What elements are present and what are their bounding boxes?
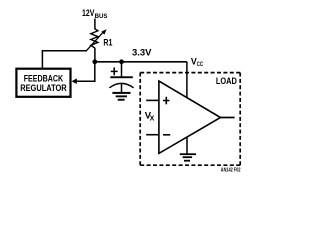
- svg-text:CC: CC: [197, 61, 204, 68]
- op-amp plus input marker: [163, 97, 169, 105]
- node junction J2: [119, 59, 124, 64]
- arrowhead into regulator right edge: [72, 78, 77, 84]
- wire R1 bottom lead: [94, 48, 96, 62]
- label VX: [145, 111, 155, 123]
- svg-text:12V: 12V: [82, 8, 95, 18]
- wire VCC drop into op-amp: [186, 62, 188, 98]
- load box (dashed) left edge: [139, 73, 141, 166]
- load box (dashed) right edge: [239, 73, 241, 166]
- capacitor C1 lead: [121, 62, 123, 77]
- feedback regulator box: [16, 69, 70, 97]
- svg-text:BUS: BUS: [95, 13, 108, 20]
- wire top lead from 12VBUS to R1: [94, 19, 96, 30]
- capacitor C1 plus label: [111, 67, 118, 75]
- wire op-amp output stub: [221, 117, 235, 119]
- wire from regulator top to R1 wiper: [42, 51, 87, 68]
- capacitor C1 plates: [109, 76, 133, 88]
- wire from J1 down-left into regulator (with arrowhead): [76, 62, 95, 81]
- load box (dashed) top edge: [140, 72, 240, 74]
- svg-text:R1: R1: [103, 38, 113, 49]
- op-amp U1 triangle: [159, 81, 221, 153]
- net label 12VBUS: [82, 8, 108, 20]
- wire noninverting input stub: [146, 99, 159, 101]
- op-amp minus input marker: [163, 134, 170, 136]
- svg-text:3.3V: 3.3V: [132, 46, 152, 57]
- svg-text:LOAD: LOAD: [216, 76, 237, 87]
- wire inverting input stub: [146, 134, 159, 136]
- ground under capacitor: [112, 92, 130, 101]
- svg-text:FEEDBACK: FEEDBACK: [24, 74, 64, 84]
- wire op-amp ground stem: [186, 137, 188, 154]
- wire main 3.3V bus: [95, 61, 187, 63]
- svg-text:AN142 F02: AN142 F02: [221, 168, 241, 174]
- resistor R1 (variable, zigzag with wiper arrow): [86, 29, 113, 51]
- ground under op-amp: [180, 153, 196, 161]
- label VCC: [191, 56, 204, 68]
- svg-text:REGULATOR: REGULATOR: [20, 83, 67, 93]
- capacitor C1 bottom stem: [121, 84, 123, 93]
- node junction J1: [92, 59, 97, 64]
- svg-text:X: X: [150, 116, 155, 123]
- load box (dashed) bottom edge: [140, 164, 240, 166]
